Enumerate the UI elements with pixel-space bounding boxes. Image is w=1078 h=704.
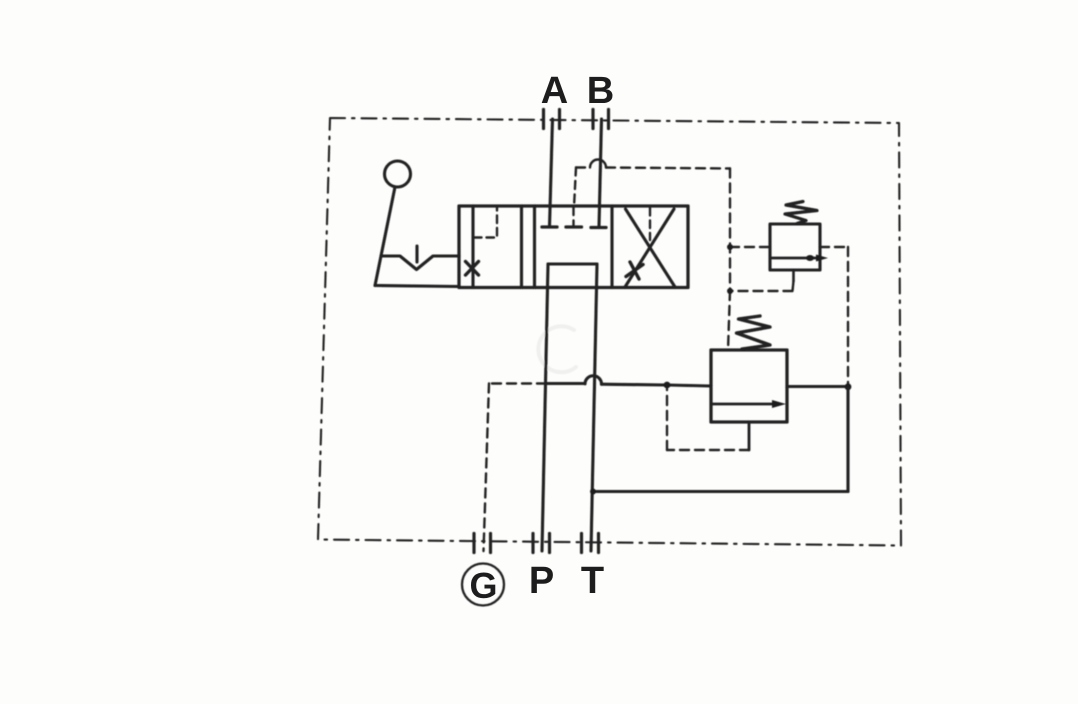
V2 right pilot drop (dashed) xyxy=(847,247,849,384)
right box pilot (dashed) xyxy=(649,208,651,240)
V3 spring xyxy=(737,316,771,349)
port B ticks xyxy=(593,110,609,129)
junction dot xyxy=(727,288,733,294)
port P ticks xyxy=(533,534,550,553)
return line down xyxy=(846,387,849,492)
detent tick xyxy=(415,246,418,262)
port A ticks xyxy=(544,110,560,129)
right box crossed flow X xyxy=(625,209,675,287)
junction dot xyxy=(845,383,852,390)
node A blocked-port bar xyxy=(542,225,557,228)
junction dot xyxy=(664,382,671,389)
svg-text:T: T xyxy=(581,560,604,602)
node pilot blocked-port bar xyxy=(566,225,582,228)
detent notch line xyxy=(381,256,459,270)
V3 drain horizontal (dashed) xyxy=(667,449,749,451)
valve divider 1 xyxy=(520,206,523,288)
enclosure border (dash-dot) xyxy=(318,118,901,546)
pilot drop to center stub (dashed) xyxy=(574,168,576,208)
left box flow line xyxy=(471,206,474,288)
wire B line xyxy=(599,119,602,227)
center box P-T bridge xyxy=(548,262,597,265)
pilot vertical continues to main relief (dashed) xyxy=(728,291,730,350)
V2 right pilot (dashed) xyxy=(820,246,848,248)
V3 outlet line xyxy=(787,385,848,388)
hop over B line xyxy=(590,160,606,168)
port G ticks xyxy=(474,534,491,553)
V2 arrowhead xyxy=(816,255,828,262)
pilot relief valve V2 body xyxy=(770,224,820,270)
directional valve V1 body xyxy=(459,206,688,288)
gauge drop to G (dashed) xyxy=(484,384,490,552)
V2 dot on arrow xyxy=(806,255,814,261)
junction dot xyxy=(727,244,733,250)
junction dot xyxy=(590,489,596,495)
wire T line xyxy=(591,264,597,551)
right box arrow mark xyxy=(626,262,643,279)
main pressure line from P xyxy=(546,382,585,385)
pilot stub center (dashed) xyxy=(572,207,574,225)
svg-text:P: P xyxy=(529,560,554,602)
main relief valve V3 body xyxy=(711,350,787,422)
V2 drain (dashed) xyxy=(730,281,794,291)
valve divider 3 xyxy=(610,206,613,288)
V2 spring xyxy=(785,202,817,224)
hop over T line xyxy=(585,376,602,384)
main pressure line continues xyxy=(602,384,712,386)
svg-text:A: A xyxy=(541,70,568,112)
pilot line B to relief (dashed horizontal) xyxy=(576,166,589,168)
G circle xyxy=(462,564,504,606)
V3 arrowhead xyxy=(772,400,786,408)
pilot dashed to right xyxy=(606,168,730,169)
V3 drain riser (dashed) xyxy=(666,389,668,450)
svg-text:B: B xyxy=(587,70,614,112)
svg-text:G: G xyxy=(469,565,497,606)
gauge branch (dashed) xyxy=(489,382,546,384)
lever base link xyxy=(375,286,459,287)
watermark faint arc xyxy=(538,326,576,372)
wire A line xyxy=(550,119,553,227)
lever knob xyxy=(385,161,411,187)
V3 inner flow line xyxy=(712,403,778,406)
valve divider 2 xyxy=(533,206,536,288)
wire P line xyxy=(542,264,548,551)
pilot vertical at 730 (dashed) xyxy=(729,169,731,292)
node B blocked-port bar xyxy=(591,226,606,229)
port T ticks xyxy=(582,534,599,553)
lever shaft xyxy=(375,187,395,286)
V2 drain stub xyxy=(792,270,795,281)
V2 arrow line xyxy=(771,257,822,260)
left box arrow mark xyxy=(466,262,479,276)
left box pilot (dashed) xyxy=(474,208,497,238)
V2 left pilot (dashed) xyxy=(730,246,770,248)
return line to T xyxy=(593,490,848,493)
V3 drain stub xyxy=(748,422,751,450)
